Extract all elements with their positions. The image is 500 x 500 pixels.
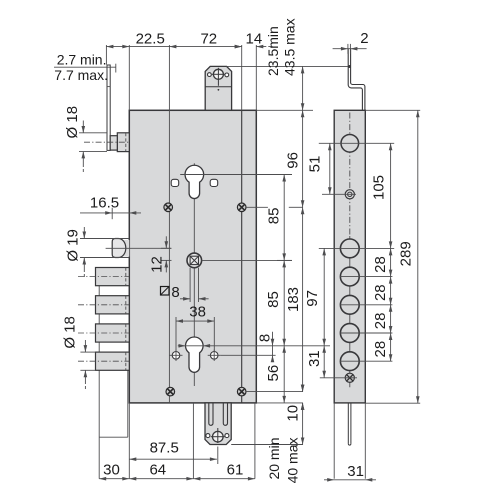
deadbolt 4 centre line <box>78 360 129 362</box>
faceplate centre line dash-dot <box>349 113 351 237</box>
dimension 183 <box>302 207 304 391</box>
svg-text:8: 8 <box>257 334 274 342</box>
body inner vertical line left <box>168 110 170 403</box>
svg-text:40 max: 40 max <box>285 438 301 484</box>
bottom tab slot left <box>209 403 213 425</box>
extension line body left top <box>128 45 130 110</box>
svg-text:43.5 max: 43.5 max <box>281 18 297 76</box>
vertical centre axis through cylinders <box>193 163 195 386</box>
svg-text:28: 28 <box>372 256 389 273</box>
top tab small hole left <box>208 73 212 77</box>
svg-text:72: 72 <box>200 31 217 48</box>
dimension 96 <box>302 110 304 207</box>
bolt hole 1 centre line <box>319 247 394 249</box>
door face reference line <box>227 65 349 67</box>
leader line 7.7 max <box>54 66 116 68</box>
svg-text:87.5: 87.5 <box>150 440 179 457</box>
bottom tab line extension right <box>231 444 303 446</box>
svg-text:56: 56 <box>265 365 282 382</box>
bent mounting lip (Z profile) <box>348 49 362 111</box>
bottom tab screw hole <box>213 431 224 442</box>
svg-text:16.5: 16.5 <box>90 195 119 212</box>
fixing holes line extension right <box>221 354 276 356</box>
bottom tab small hole left <box>206 434 210 438</box>
dimension 30 bolt throw <box>99 478 129 480</box>
bottom mounting tab <box>205 403 231 445</box>
dimension 56 lower cylinder to body bottom <box>283 346 285 403</box>
chain tick column B upper screws <box>289 206 303 208</box>
dimension diameter 19 deadlatch <box>80 238 129 240</box>
upper fixing screw right <box>237 203 246 212</box>
faceplate tail below strip <box>347 403 349 444</box>
upper screw line extension <box>246 206 268 208</box>
follower centre line right <box>202 259 292 261</box>
top tab small hole right <box>225 73 229 77</box>
deadbolt 1 centre line <box>78 276 129 278</box>
latch bolt head <box>110 136 117 150</box>
svg-text:28: 28 <box>372 341 389 358</box>
extension line screw column right top <box>241 45 243 110</box>
svg-text:28: 28 <box>372 313 389 330</box>
lower cylinder diameter arrows <box>179 344 186 348</box>
svg-text:8: 8 <box>171 284 179 301</box>
latch centre line <box>84 141 129 143</box>
dimension 38 fixing holes <box>175 317 177 351</box>
lock body (side view) <box>129 110 256 403</box>
dimension 12 follower offset <box>161 247 172 249</box>
square hole left of upper cylinder <box>171 179 179 186</box>
square hole right of upper cylinder <box>210 179 218 186</box>
lower screw line extension <box>246 391 303 393</box>
extension line strip right bottom <box>364 403 366 479</box>
faceplate bolt hole 4 <box>340 324 359 343</box>
bottom tab small hole right <box>225 434 229 438</box>
body top line extension right <box>256 109 313 111</box>
dimension 2 top right <box>333 48 367 50</box>
deadlatch neck <box>123 240 130 257</box>
fixing hole left of lower cylinder <box>170 350 183 361</box>
svg-text:Ø 18: Ø 18 <box>62 316 79 349</box>
dimension 28 number 4 <box>390 333 392 361</box>
faceplate bolt hole 3 <box>340 295 359 314</box>
faceplate screw hole lower <box>345 373 354 382</box>
dimension square 8 follower <box>189 268 191 302</box>
dimension 10 <box>301 385 305 392</box>
latch hidden edge <box>125 133 127 151</box>
top tab separation line <box>205 86 231 88</box>
dimension 72 top <box>169 46 241 48</box>
dimension 22.5 top <box>106 46 170 48</box>
deadbolt 3 (18 mm) <box>96 324 130 342</box>
extension line cylinder axis bottom <box>192 403 194 479</box>
extension line body right top <box>255 45 257 110</box>
faceplate bolt hole 2 <box>340 267 359 286</box>
svg-text:Ø 18: Ø 18 <box>64 106 81 139</box>
svg-text:64: 64 <box>149 461 166 478</box>
auxiliary deadlatch (19 mm) <box>112 239 126 258</box>
faceplate centre line lower <box>349 236 351 387</box>
euro cylinder profile upper <box>185 165 204 198</box>
extension line body left to chain <box>128 465 130 479</box>
svg-text:14: 14 <box>246 31 263 48</box>
square follower hub <box>187 253 202 268</box>
bolt hole 5 centre line <box>340 360 392 362</box>
extension line faceplate front top <box>105 45 107 65</box>
dimension 85 cylinder to follower <box>283 175 285 261</box>
euro cylinder profile lower <box>185 337 203 372</box>
bolt hole 3 centre line <box>340 304 392 306</box>
follower centre line tick left <box>161 259 172 261</box>
svg-text:7.7 max.: 7.7 max. <box>54 67 108 83</box>
dimension diameter 18 latch <box>79 132 107 134</box>
dimension 61 bottom <box>193 478 255 480</box>
dimension 8 axis to fixing holes <box>272 332 274 362</box>
dimension 51 <box>329 143 331 194</box>
top mounting tab <box>205 66 231 110</box>
dimension 31 strip width <box>324 479 376 481</box>
dimension 28 number 1 <box>390 248 392 276</box>
svg-text:31: 31 <box>306 350 323 367</box>
svg-text:10: 10 <box>284 405 301 422</box>
dimension 31 cylinder to screw hole <box>323 346 325 378</box>
upper cylinder horizontal centre line <box>180 174 292 176</box>
reference line node dot <box>348 65 351 68</box>
latch bolt block <box>117 133 129 152</box>
body inner vertical line right <box>241 110 243 403</box>
dimension 85 follower to lower cylinder <box>283 260 285 345</box>
deadbolt 1 (18 mm) <box>96 268 130 286</box>
faceplate bolt hole 1 <box>340 239 359 258</box>
svg-text:22.5: 22.5 <box>136 31 165 48</box>
deadbolt 3 centre line <box>78 332 129 334</box>
upper fixing screw left <box>164 203 173 212</box>
extension line body right bottom <box>254 403 256 479</box>
faceplate latch hole <box>341 135 359 153</box>
svg-text:85: 85 <box>265 208 282 225</box>
extension line screw column left top <box>168 45 170 110</box>
svg-text:Ø 19: Ø 19 <box>65 229 82 262</box>
extension line body left bottom <box>128 403 130 465</box>
fixing hole right of lower cylinder <box>208 350 221 361</box>
front plate joint line <box>107 86 110 88</box>
dimension 289 strip length <box>417 110 419 403</box>
svg-text:23.5min: 23.5min <box>265 26 281 76</box>
top tab centre dot <box>218 89 220 91</box>
dimension 14 top <box>235 45 242 49</box>
chain ticks column A <box>277 174 292 176</box>
faceplate bolt hole 5 <box>340 352 359 371</box>
strip bottom line extension right <box>366 402 421 404</box>
svg-text:105: 105 <box>370 175 387 200</box>
deadbolt 2 centre line <box>78 304 129 306</box>
lower cylinder horizontal centre line <box>178 345 330 347</box>
screw hole upper centre line <box>322 193 356 195</box>
adjustable front plate strip <box>107 65 110 150</box>
dimension 16.5 <box>80 212 141 214</box>
lower fixing screw left <box>166 387 175 396</box>
svg-text:12: 12 <box>149 256 166 273</box>
faceplate screw hole upper <box>345 190 354 199</box>
dimension 28 number 2 <box>390 277 392 305</box>
screw hole lower centre line <box>320 377 357 379</box>
deadbolt 2 (18 mm) <box>96 296 130 314</box>
svg-text:51: 51 <box>307 156 324 173</box>
svg-text:97: 97 <box>304 290 321 307</box>
extension line bolt tip bottom <box>98 437 100 479</box>
dimension 87.5 bottom tab <box>129 458 217 460</box>
svg-text:38: 38 <box>189 304 206 321</box>
dimension 97 <box>323 248 325 345</box>
dimension diameter 18 deadbolt <box>80 351 95 353</box>
bolt hole 4 centre line <box>340 332 392 334</box>
deadlatch centre line <box>106 247 171 249</box>
dimension 23.5 min 43.5 max <box>302 66 304 110</box>
deadbolt 4 hidden edge <box>125 352 127 370</box>
svg-text:85: 85 <box>265 291 282 308</box>
svg-text:183: 183 <box>285 287 302 312</box>
bottom tab centre line <box>217 447 219 465</box>
svg-text:2.7 min.: 2.7 min. <box>57 52 107 68</box>
dimension 105 <box>390 143 392 248</box>
extension line strip left bottom <box>333 403 335 479</box>
svg-text:20 min: 20 min <box>266 438 282 480</box>
deadbolt 2 hidden edge <box>125 296 127 314</box>
svg-text:289: 289 <box>398 241 415 266</box>
svg-text:2: 2 <box>360 30 368 47</box>
deadbolt 3 hidden edge <box>125 324 127 342</box>
deadbolt 4 (18 mm) <box>96 352 130 370</box>
bottom tab slot right <box>223 403 227 425</box>
top tab screw hole <box>213 69 223 79</box>
svg-text:96: 96 <box>284 152 301 169</box>
svg-text:61: 61 <box>227 461 244 478</box>
dimension 64 bottom <box>129 478 193 480</box>
lower fixing screw right <box>237 387 246 396</box>
body bottom line extension right <box>256 402 303 404</box>
faceplate strip (front view) <box>334 110 365 403</box>
bolt hole 2 centre line <box>340 276 392 278</box>
deadbolt 1 hidden edge <box>125 268 127 286</box>
svg-text:28: 28 <box>372 284 389 301</box>
dimension 28 number 3 <box>390 305 392 333</box>
strip top line extension right <box>365 109 420 111</box>
svg-text:30: 30 <box>103 461 120 478</box>
thrown deadbolt envelope <box>98 267 100 437</box>
latch hole centre line <box>319 142 394 144</box>
dimension 20 min 40 max <box>302 403 304 445</box>
svg-text:31: 31 <box>347 463 364 480</box>
